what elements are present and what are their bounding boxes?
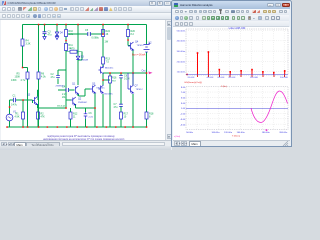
svg-text:11: 11 xyxy=(73,116,76,119)
svg-text:TIP41C: TIP41C xyxy=(137,45,145,47)
svg-text:47K: 47K xyxy=(41,116,46,119)
wire C4 link xyxy=(58,89,95,108)
source V1 xyxy=(6,114,13,121)
svg-text:Q7: Q7 xyxy=(135,85,139,88)
svg-text:140.00u: 140.00u xyxy=(237,132,246,134)
svg-text:1.00: 1.00 xyxy=(181,108,186,110)
x axis labels transient xyxy=(186,132,288,134)
svg-text:-3.00: -3.00 xyxy=(180,119,186,121)
svg-text:D4: D4 xyxy=(60,32,64,35)
wire Q4 to mid rail xyxy=(132,50,134,127)
wire branch R6 xyxy=(38,25,40,128)
wire C8 C7 R17 xyxy=(120,73,122,127)
resistor R5 xyxy=(26,72,29,79)
capacitor C3 xyxy=(43,32,47,34)
svg-text:m.n: m.n xyxy=(112,80,117,83)
svg-text:2N3906C: 2N3906C xyxy=(78,102,88,104)
y axis labels xyxy=(177,30,186,73)
wire right branch R24 R13 xyxy=(102,25,104,128)
wire top supply rail xyxy=(23,24,147,26)
svg-text:TIP41C: TIP41C xyxy=(136,89,144,91)
svg-text:50.00u: 50.00u xyxy=(186,132,193,134)
svg-text:T (Secs): T (Secs) xyxy=(232,136,240,138)
svg-text:140.00K: 140.00K xyxy=(250,77,259,79)
right analysis window xyxy=(171,0,292,147)
resistor R4 xyxy=(21,39,24,46)
capacitor C7 xyxy=(119,104,123,106)
capacitor C5 xyxy=(88,32,91,36)
wire C5 node xyxy=(68,25,103,35)
transistor Q7 xyxy=(128,73,134,93)
svg-text:200.00K: 200.00K xyxy=(280,77,289,79)
wire bias resistors xyxy=(23,96,38,127)
svg-text:4.3k: 4.3k xyxy=(41,76,46,79)
svg-text:D3: D3 xyxy=(81,56,85,59)
transistor Q1 xyxy=(76,86,79,94)
capacitor C8 xyxy=(119,76,123,78)
resistor R12 xyxy=(69,112,72,119)
svg-text:40.00K: 40.00K xyxy=(207,77,214,79)
svg-text:47u: 47u xyxy=(51,76,56,79)
v(Out) sine trace xyxy=(251,91,288,123)
junction dots bottom rail xyxy=(6,126,147,128)
svg-text:2.2m: 2.2m xyxy=(89,117,94,119)
resistor R16 xyxy=(109,76,112,83)
capacitor C2 xyxy=(56,75,60,77)
svg-text:v(Out): v(Out) xyxy=(174,135,180,138)
svg-text:20.00K: 20.00K xyxy=(188,77,195,79)
resistor R13 xyxy=(102,57,105,64)
svg-text:2N3904C: 2N3904C xyxy=(56,86,66,88)
resistor R10 xyxy=(65,30,68,37)
node Out probe arrow xyxy=(149,72,153,75)
junction dots top rail xyxy=(38,24,129,26)
svg-text:Out: Out xyxy=(142,70,146,73)
y axis labels transient xyxy=(180,87,186,126)
svg-text:Q2: Q2 xyxy=(78,98,82,101)
svg-text:130K: 130K xyxy=(11,79,17,82)
svg-text:100.00u: 100.00u xyxy=(212,132,221,134)
svg-text:Q1: Q1 xyxy=(72,83,76,86)
transistor Q3 input xyxy=(33,97,38,105)
svg-text:C6: C6 xyxy=(89,112,93,115)
wire Q2 node xyxy=(71,100,96,127)
svg-text:KE140C: KE140C xyxy=(97,88,106,90)
wire Q1 collector emitter xyxy=(38,90,67,108)
svg-text:7.00: 7.00 xyxy=(181,92,186,94)
wire bottom ground rail xyxy=(7,126,147,128)
svg-text:5.00: 5.00 xyxy=(181,98,186,100)
ground at D4 xyxy=(55,37,58,40)
svg-text:47u: 47u xyxy=(114,106,119,109)
svg-text:470: 470 xyxy=(71,48,76,51)
svg-text:9.00: 9.00 xyxy=(181,87,186,89)
capacitor C6 xyxy=(84,112,88,119)
svg-text:8.2: 8.2 xyxy=(131,33,135,36)
svg-text:F (Hz): F (Hz) xyxy=(221,86,227,88)
wire left branch R4 xyxy=(23,25,28,128)
svg-text:120.00u: 120.00u xyxy=(224,132,233,134)
svg-text:46: 46 xyxy=(106,33,109,36)
svg-text:1N4148: 1N4148 xyxy=(81,60,89,62)
transistor Q4 xyxy=(128,42,134,50)
svg-text:1.8k: 1.8k xyxy=(69,33,74,36)
resistor R1 xyxy=(22,112,25,119)
wire branch D4 xyxy=(56,25,58,37)
diode D4 xyxy=(55,32,58,35)
svg-text:566.6uA: 566.6uA xyxy=(57,105,65,108)
capacitor C1 xyxy=(13,98,15,102)
svg-text:-5.00: -5.00 xyxy=(180,124,186,126)
svg-text:7.5: 7.5 xyxy=(106,61,110,64)
transistor Q6 xyxy=(99,85,104,93)
diode D3 xyxy=(76,56,79,59)
svg-text:0.068u: 0.068u xyxy=(92,37,100,40)
svg-text:BD140C: BD140C xyxy=(105,68,114,70)
svg-text:400.00m: 400.00m xyxy=(177,41,186,43)
wire R9 node xyxy=(66,52,82,60)
resistor R9 horizontal xyxy=(70,50,77,53)
resistor R11 xyxy=(65,44,68,51)
harmonic stems xyxy=(197,52,285,75)
svg-text:180.00u: 180.00u xyxy=(262,132,271,134)
resistor R2 xyxy=(37,112,40,119)
wire C2 branch xyxy=(58,70,66,84)
svg-text:C1: C1 xyxy=(13,95,17,98)
battery V2 xyxy=(144,45,150,53)
svg-text:200.00u: 200.00u xyxy=(279,132,288,134)
wire output mid rail xyxy=(103,72,147,74)
transistor Q8 xyxy=(90,85,96,93)
svg-text:80.00K: 80.00K xyxy=(229,77,236,79)
svg-text:Q3: Q3 xyxy=(27,94,31,97)
svg-text:Вып = 36 мА: Вып = 36 мА xyxy=(132,54,146,57)
resistor R20 xyxy=(127,30,130,37)
svg-text:C5: C5 xyxy=(85,29,89,32)
ground at C3 xyxy=(43,37,46,40)
svg-text:1W: 1W xyxy=(105,41,109,44)
transistor Q5 xyxy=(99,66,104,74)
svg-text:500.00m: 500.00m xyxy=(177,30,186,32)
upper plot x axis line xyxy=(186,73,288,76)
svg-text:Q4: Q4 xyxy=(135,41,139,44)
svg-text:60.00K: 60.00K xyxy=(218,77,225,79)
svg-text:20u: 20u xyxy=(62,96,67,99)
harmonic distortion plot frame xyxy=(186,29,288,75)
resistor R17 xyxy=(120,112,123,119)
zero axis line xyxy=(186,107,288,110)
wire branch D3 Q1 xyxy=(77,25,79,97)
svg-text:47u: 47u xyxy=(48,34,53,37)
left schematic editor window xyxy=(0,0,172,150)
resistor R24 xyxy=(102,30,105,37)
wire branch C3 xyxy=(44,25,46,37)
svg-text:V2: V2 xyxy=(149,42,153,45)
capacitor C4 xyxy=(66,88,68,92)
wire Q5 Q6 stub xyxy=(103,73,110,127)
svg-text:3.00: 3.00 xyxy=(181,103,186,105)
svg-text:4.9K: 4.9K xyxy=(15,116,20,119)
svg-text:Lider A08.CIR: Lider A08.CIR xyxy=(229,27,246,30)
svg-text:-1.00: -1.00 xyxy=(180,114,186,116)
svg-text:BD139C: BD139C xyxy=(105,94,114,96)
junction dots misc xyxy=(9,33,148,109)
x axis labels xyxy=(188,77,289,79)
svg-text:4.7u: 4.7u xyxy=(21,79,26,82)
wire input node xyxy=(10,100,33,127)
svg-text:0.1M: 0.1M xyxy=(124,78,129,81)
svg-text:300.00m: 300.00m xyxy=(177,51,186,53)
transient plot frame xyxy=(186,87,288,130)
resistor R18 xyxy=(145,112,148,119)
svg-text:100.00m: 100.00m xyxy=(177,72,186,74)
wire R20 Q4 xyxy=(128,25,131,46)
svg-text:8: 8 xyxy=(149,116,151,119)
wire battery branch xyxy=(146,25,148,128)
svg-text:3.3K: 3.3K xyxy=(26,43,31,46)
resistor R6 xyxy=(37,72,40,79)
wire branch R10 R11 xyxy=(66,25,71,109)
svg-text:0.47u: 0.47u xyxy=(11,104,18,107)
transistor Q2 xyxy=(71,97,76,105)
svg-text:10: 10 xyxy=(124,116,127,119)
svg-text:HD(Harm(v(Out))): HD(Harm(v(Out))) xyxy=(185,81,203,84)
svg-text:200.00m: 200.00m xyxy=(177,61,186,63)
